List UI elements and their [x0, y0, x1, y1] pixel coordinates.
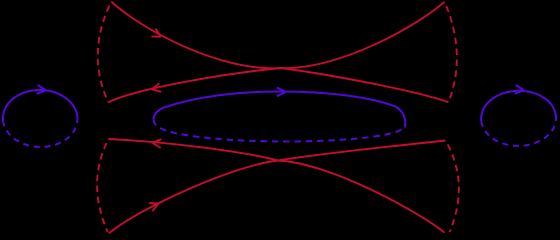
arrowhead on P (pointing left) [152, 138, 161, 147]
dashed separatrix arc bottom-right (back of cylinder) [446, 141, 459, 233]
arrowhead on Q (pointing up-right) [149, 199, 160, 211]
central periodic orbit: solid front (top) part [154, 92, 406, 128]
separatrix P: bottom half, arc-top-left through crossing then diving right (solid red) [109, 139, 445, 233]
separatrix R: top-left apex through saddle crossing to lower right (solid red) [111, 2, 448, 103]
arrowhead on left small orbit (pointing right) [37, 85, 46, 95]
dashed separatrix arc top-right (back of cylinder) [445, 2, 457, 103]
central periodic orbit: dashed back (bottom) part [156, 125, 405, 141]
separatrix S: lower-left through saddle crossing to top-right apex (solid red) [108, 2, 444, 103]
solid front (top) arc [481, 90, 557, 122]
dashed separatrix arc bottom-left (back of cylinder) [97, 139, 108, 232]
left small periodic orbit [2, 89, 78, 148]
solid front (top) arc [3, 89, 78, 123]
right small periodic orbit [481, 90, 557, 147]
arrowhead on central orbit (pointing right) [277, 87, 286, 96]
dashed back (bottom) arc [2, 121, 77, 148]
separatrix Q: bottom half, arc-bottom-left rising through crossing to right (solid red) [109, 141, 446, 234]
arrowhead on R (pointing down-right) [151, 29, 163, 41]
arrowhead on S (pointing down-left) [151, 83, 161, 93]
arrowhead on right small orbit (pointing right) [515, 85, 524, 95]
dashed back (bottom) arc [481, 121, 556, 146]
dashed separatrix arc top-left (back of cylinder) [98, 2, 112, 103]
